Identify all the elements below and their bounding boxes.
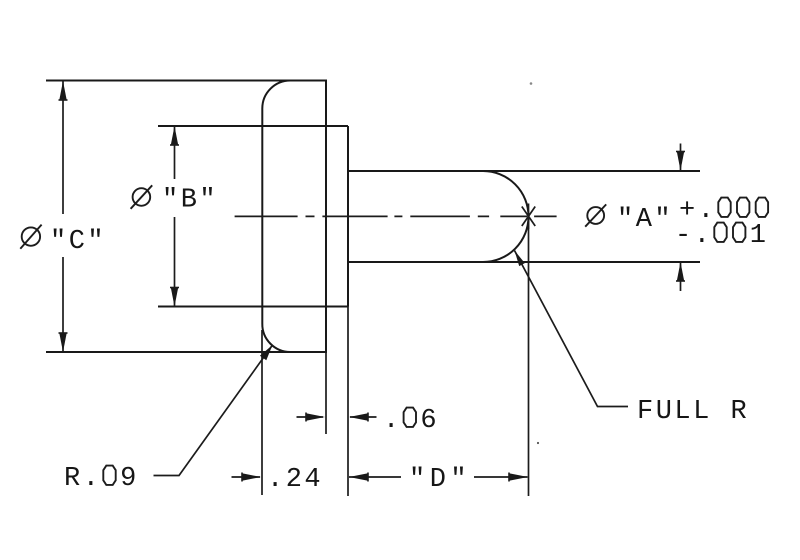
extension line D right (from pin tip) bbox=[528, 216, 530, 496]
svg-text:.24: .24 bbox=[267, 465, 323, 495]
svg-text:. 6: . 6 bbox=[383, 406, 439, 436]
head top edge + C extension line bbox=[46, 80, 327, 82]
svg-text:"C": "C" bbox=[50, 227, 106, 257]
plotter-style zero digits bbox=[103, 198, 768, 485]
leader line FULL R bbox=[515, 251, 629, 407]
dimension line .06 left bbox=[297, 416, 324, 418]
dimension line D right segment bbox=[474, 476, 528, 478]
arrowhead .24 (points right) bbox=[242, 473, 261, 480]
arrowhead B top bbox=[171, 126, 178, 145]
svg-text:"A": "A" bbox=[617, 205, 673, 235]
tangent mark X at pin tip bbox=[522, 204, 535, 230]
svg-text:-. 1: -. 1 bbox=[675, 221, 769, 251]
leader line R.09 bbox=[154, 345, 273, 476]
arrowhead base bars bbox=[59, 100, 686, 482]
dimension line D left segment bbox=[349, 476, 401, 478]
dimension line C bottom bbox=[62, 257, 64, 352]
arrowhead leader R.09 bbox=[260, 345, 273, 360]
centerline of part (dash-dot) bbox=[235, 215, 557, 217]
diameter symbol of B bbox=[131, 185, 153, 209]
svg-text:R. 9: R. 9 bbox=[64, 464, 139, 494]
arrowhead D right (points right) bbox=[509, 473, 528, 480]
speck near D line bbox=[537, 442, 539, 444]
pin bottom edge + A extension line bbox=[348, 261, 700, 263]
arrowhead .06 right (points left) bbox=[349, 413, 368, 420]
head bottom edge + C extension line bbox=[46, 351, 327, 353]
svg-text:"D": "D" bbox=[409, 465, 471, 495]
arrowhead leader FULL R bbox=[515, 251, 525, 267]
shoulder top edge + B extension line bbox=[158, 125, 348, 127]
dimension line A bottom bbox=[680, 262, 682, 291]
extension line .06 left bbox=[325, 352, 327, 434]
dimension line .24 bbox=[232, 476, 261, 478]
arrowhead .06 left (points right) bbox=[306, 413, 325, 420]
dimension line .06 right bbox=[350, 416, 377, 418]
dimension line C top bbox=[62, 81, 64, 214]
svg-text:"B": "B" bbox=[162, 186, 218, 216]
head left face bbox=[261, 109, 263, 324]
pin full radius end bbox=[483, 171, 529, 262]
head right face bbox=[325, 81, 327, 353]
shoulder bottom edge + B extension line bbox=[158, 306, 348, 308]
arrowhead C bottom bbox=[59, 333, 66, 352]
arrowhead D left (points left) bbox=[349, 473, 368, 480]
head corner radius top-left bbox=[262, 81, 290, 109]
dimension line B top bbox=[174, 126, 176, 179]
diameter symbol of C bbox=[20, 225, 41, 249]
extension line .06 right / D left bbox=[347, 307, 349, 497]
extension line .24 left bbox=[261, 330, 263, 495]
shoulder right face bbox=[347, 126, 349, 307]
arrowhead A top (points down) bbox=[677, 152, 684, 171]
dimension line A top bbox=[680, 144, 682, 171]
dimension line B bottom bbox=[174, 217, 176, 307]
arrowhead A bottom (points up) bbox=[677, 262, 684, 281]
arrowhead B bottom bbox=[171, 288, 178, 307]
head corner radius bottom-left (R.09) bbox=[262, 324, 290, 353]
speck top bbox=[530, 82, 533, 85]
diameter symbol of A bbox=[585, 204, 606, 226]
svg-text:FULL R: FULL R bbox=[637, 397, 749, 427]
arrowhead C top bbox=[59, 81, 66, 100]
pin top edge + A extension line bbox=[348, 170, 700, 172]
